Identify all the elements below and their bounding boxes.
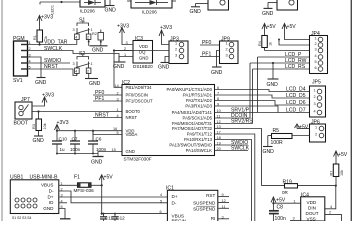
svg-text:4: 4 [314,110,316,114]
supply +5V R4 [262,24,267,30]
svg-text:PF1/OSCOUT: PF1/OSCOUT [126,99,154,104]
svg-text:IC4: IC4 [301,192,309,198]
resistor R19 [283,179,336,188]
wire JP3 pin2 DQ [114,50,169,52]
junction +5V fuse [101,184,103,186]
sheet left border [1,0,3,221]
svg-text:NRST: NRST [95,113,109,119]
wire SV1 pin3 to ground [28,57,42,78]
svg-text:R3: R3 [32,124,36,129]
pin labels IC3 [139,44,148,61]
wire RW to ground [272,63,274,79]
svg-text:IC3: IC3 [135,36,143,42]
svg-text:1: 1 [91,62,93,66]
svg-text:VBUS: VBUS [41,183,54,188]
wire JP4 pin2 [279,40,310,46]
wire IC2 pin7 to JP5 pin2 [215,95,310,98]
capacitor C6 [88,131,98,154]
wire SWCLK stub [215,150,249,152]
IC4 pin numbers [293,199,333,220]
wire PF1 stub IC2 [93,100,122,102]
svg-text:3: 3 [226,54,228,58]
junction VDD C10 [56,130,58,132]
wire cap ground rail [57,153,98,155]
svg-text:1: 1 [315,126,317,130]
svg-text:S1 S2 S3 S4: S1 S2 S3 S4 [12,216,32,220]
svg-text:11: 11 [222,205,226,209]
supply +3V3 above R1 [37,16,42,26]
svg-text:PA5/SCK1/AD5: PA5/SCK1/AD5 [183,116,213,121]
wire +5V to IC4 pin1 [273,202,300,204]
svg-text:C8: C8 [277,204,284,210]
optocoupler OK1 ILD206 [80,0,105,7]
IC1 left pin numbers [160,193,163,214]
ground R5 [263,146,273,148]
pin numbers JP5 [314,89,316,114]
ground JP9 [212,66,222,68]
IC1 right pin numbers [222,193,226,219]
svg-text:PA10/RX1/T13: PA10/RX1/T13 [184,137,213,142]
pushbutton S2 [75,51,91,79]
svg-text:100R: 100R [271,140,283,146]
svg-text:1: 1 [294,199,296,203]
wire SWCLK [28,51,120,63]
svg-text:GND: GND [211,70,223,76]
junction VDD C7 [74,130,76,132]
svg-text:PB1/AD9/T34: PB1/AD9/T34 [126,85,153,90]
wire to IC4 pin4 [325,186,336,209]
svg-text:PA2/TX1/AD2: PA2/TX1/AD2 [186,98,213,103]
USB1 pad names [12,216,32,220]
junction S1 right [88,41,90,43]
supply +5V USB [99,175,104,181]
wire LCD_RW row [250,62,310,64]
ground JP3 [161,62,170,64]
junction DQ [113,49,115,51]
svg-text:VDD: VDD [307,200,317,205]
wire LED net top [40,2,80,5]
wire PF0 to JP9 [200,44,220,46]
wire IC2 pin6 to JP5 pin1 [215,90,310,92]
svg-text:4: 4 [160,193,162,197]
svg-text:VDDA: VDDA [126,132,138,137]
svg-text:+5V: +5V [267,24,277,30]
svg-text:+5V: +5V [299,125,309,131]
svg-text:10k: 10k [43,123,47,129]
pin numbers JP6 [315,126,317,137]
wire R19 input [262,185,285,187]
svg-text:3: 3 [222,215,224,219]
junction gnd rail C7 [74,153,76,155]
svg-text:C7: C7 [72,136,78,141]
mcu IC2 STM32F030 [122,80,215,156]
wire ID stub [59,202,67,204]
svg-text:VSS: VSS [307,216,316,221]
svg-text:6: 6 [315,66,317,70]
wire LCD_P riser [257,57,259,113]
svg-text:D-: D- [172,200,177,205]
pin numbers JP4 [315,37,317,71]
svg-text:+3V3: +3V3 [42,93,54,99]
svg-text:R2: R2 [92,32,97,36]
svg-text:12: 12 [222,199,226,203]
svg-text:D-: D- [49,188,54,193]
svg-text:VDD_TAR: VDD_TAR [44,40,68,46]
wire IC3 pin3 [122,34,133,45]
svg-text:2: 2 [315,133,317,137]
svg-text:DIN: DIN [308,206,316,211]
wire IC2 pin12 SRV2/RS [215,123,253,125]
svg-text:+5V: +5V [338,152,348,158]
svg-text:GND: GND [89,81,101,87]
wire SWDIO stub [215,144,249,146]
svg-text:+5V: +5V [287,24,297,30]
capacitor C10 [52,131,62,154]
svg-text:3: 3 [117,97,119,101]
supply +3V3 IC3 [120,28,125,34]
overline SUSPEND [196,205,215,207]
svg-text:+5V: +5V [276,197,286,203]
svg-text:MFSI-036: MFSI-036 [74,188,95,193]
svg-text:4: 4 [117,114,119,118]
pushbutton S1 [75,18,91,45]
wire IC4 pin3 [290,220,301,222]
wire LCD_RS row [253,68,310,70]
ground at OK1 [106,0,115,6]
pin numbers JP9 [226,42,228,58]
svg-text:4: 4 [75,70,77,74]
svg-text:GND: GND [92,48,104,54]
svg-text:DOUT: DOUT [306,211,319,216]
junction LCD_RW gnd tap [272,62,274,64]
svg-text:GND: GND [158,65,170,71]
pin numbers JP3 [175,42,177,58]
connector JP5 [310,80,326,118]
wire K1 to ground [191,4,208,7]
svg-text:1k: 1k [269,42,273,46]
wire D+ [59,196,168,198]
connector JP6 [310,120,326,143]
svg-text:NRST: NRST [44,64,58,70]
svg-text:SUSPEND: SUSPEND [193,200,216,205]
svg-text:SRV2/RS: SRV2/RS [231,119,253,125]
junction JP4 pin1/2 [278,39,280,41]
junction on LED wire [60,1,62,3]
supply +5V JP6 [295,124,300,129]
svg-text:3: 3 [314,102,316,106]
svg-text:PA0/WKUP1/CTS1/AD0: PA0/WKUP1/CTS1/AD0 [166,87,212,92]
wire JP6 pin1 [297,128,310,130]
wire IC2 pin13 down to R19 [215,129,262,186]
ground USB [60,218,71,220]
connector USB1 mini-B [10,175,59,214]
svg-text:2: 2 [315,42,317,46]
svg-text:LCD_D4: LCD_D4 [286,87,306,93]
svg-text:R4: R4 [258,41,262,46]
svg-text:100n: 100n [275,216,286,221]
svg-text:F1: F1 [74,175,80,181]
wire USB GND [59,209,65,219]
wire R5 to ground [267,136,269,147]
IC1 right stubs [218,197,229,219]
svg-text:R1: R1 [33,35,37,40]
svg-text:SUSPEND: SUSPEND [193,206,216,211]
wire IC4 pin2 [325,215,342,221]
svg-text:BOOT0: BOOT0 [126,109,141,114]
optocoupler OK2 ILD206 [127,0,176,8]
connector JP4 [310,31,328,74]
svg-text:BOOT: BOOT [14,121,28,127]
wire IC2 pin18 down to edge [215,140,252,222]
svg-text:PA3/RX1/AD3: PA3/RX1/AD3 [185,104,212,109]
svg-text:GND: GND [35,80,47,86]
wire PF0 stub IC2 [93,94,122,96]
junction C11 [103,213,105,215]
svg-text:9: 9 [222,193,224,197]
svg-text:0R: 0R [282,190,289,195]
svg-text:1: 1 [175,42,177,46]
svg-text:1u: 1u [60,147,66,152]
supply +5V JP4 [282,24,287,30]
fuse F1 [74,175,102,188]
wire RS riser [252,69,254,124]
svg-text:+5V: +5V [104,174,114,180]
capacitor C7 [70,131,80,154]
svg-text:GND: GND [126,149,135,154]
svg-text:PA1/RTS1/AD1: PA1/RTS1/AD1 [183,93,213,98]
wire IC2 pin10 SRV1/P to JP5 pin4 row [215,112,310,114]
svg-text:ILD206: ILD206 [142,10,157,15]
svg-text:GND: GND [43,206,54,211]
svg-text:GND: GND [139,56,148,61]
svg-text:PF1: PF1 [202,52,212,58]
svg-text:R7: R7 [330,171,334,176]
junction gnd rail C6 [92,153,94,155]
svg-text:2: 2 [226,48,228,52]
svg-text:LCD_D5: LCD_D5 [286,93,306,99]
supply +3V3 JP7 [42,97,47,103]
junction R1/VDD_TAR [38,43,40,45]
svg-text:GND: GND [105,8,117,14]
wire BOOT0 [32,111,122,113]
wire RW riser [249,63,251,118]
wire VBUS to fuse [59,184,78,186]
wire NRST to S2 [28,69,77,76]
svg-text:PF0: PF0 [202,40,212,46]
svg-text:LCD_D6: LCD_D6 [286,100,306,106]
svg-text:2: 2 [175,48,177,52]
svg-text:STM32F030F: STM32F030F [124,157,152,162]
svg-text:6: 6 [160,210,162,214]
USB1 shield pads [15,198,37,208]
wire IC3 DQ net [114,50,133,52]
wire IC2 pin15 gnd [98,152,122,157]
svg-text:SV1: SV1 [13,78,23,84]
IC1 left pin labels [172,194,187,223]
wire IC2 pin9 to JP5 pin4 [215,106,279,113]
junction C12 [114,213,116,215]
wire 5V rail to IC1 [102,213,168,215]
svg-text:2: 2 [117,91,119,95]
svg-text:4: 4 [75,36,77,40]
svg-text:3: 3 [315,48,317,52]
resistor R5 [268,128,310,139]
svg-text:1: 1 [314,89,316,93]
wire K2 to ground [264,3,278,9]
svg-text:C6: C6 [96,136,102,141]
svg-text:ILD206: ILD206 [80,9,95,14]
svg-text:RST: RST [206,193,215,198]
wire IC2 pin11 DCOIN [215,117,251,119]
svg-text:GND: GND [33,138,45,144]
junction BOOT0/R3 [37,110,39,112]
wire JP3 pin3 gnd [165,57,169,63]
svg-text:C10: C10 [59,136,68,141]
USB1 pin numbers [61,182,63,209]
wire NRST stub IC2 [93,117,122,119]
svg-text:PF0/OSCIN: PF0/OSCIN [126,93,148,98]
svg-text:SWCLK: SWCLK [231,146,250,152]
connector JP3 [169,37,188,64]
junction C8 [272,202,274,204]
driver IC4 [301,192,325,221]
svg-text:R19: R19 [283,179,293,185]
junction gnd rail C10 [56,153,58,155]
supply +3V3 JP3 [159,30,164,37]
IC2 right pin labels [166,87,212,153]
svg-text:C12: C12 [116,216,125,221]
svg-text:GND: GND [91,160,103,166]
svg-text:14: 14 [115,84,119,88]
svg-text:LCD_RS: LCD_RS [285,64,306,70]
wire +5V to JP4 pin1 [285,30,310,40]
ground JP4 [268,78,279,80]
svg-text:2: 2 [87,70,89,74]
pin numbers S2 [73,62,93,74]
wire JP3 pin1 [162,37,170,45]
wire LCD_P row [258,56,310,58]
ground SV1 [37,77,46,79]
svg-text:NRST: NRST [126,115,138,120]
svg-text:RI: RI [211,216,216,221]
capacitor C12 [112,214,119,221]
svg-text:PA9/TX1/T12: PA9/TX1/T12 [187,132,213,137]
resistor R4 [262,30,268,51]
svg-text:PF1: PF1 [95,96,105,102]
pin numbers SV1 [29,41,31,70]
pin numbers IC3 [124,41,128,57]
svg-text:1: 1 [315,37,317,41]
svg-text:2: 2 [87,36,89,40]
wire VDD rail [57,130,122,132]
ground R3 [34,135,43,137]
ground S2 [85,78,98,80]
svg-text:SWCLK: SWCLK [44,46,63,52]
jumper JP7 BOOT [15,97,32,119]
svg-text:GND: GND [190,9,202,15]
svg-text:100n: 100n [70,147,81,152]
svg-text:+3V3: +3V3 [41,15,53,21]
shared ground S1/R2 [90,45,108,47]
svg-text:LCD_D7: LCD_D7 [286,108,306,114]
svg-text:PA4/NSS1/AD4/T141: PA4/NSS1/AD4/T141 [172,110,213,115]
svg-text:3: 3 [175,54,177,58]
svg-text:REGIN: REGIN [172,219,187,222]
wire +5V down [101,181,103,214]
svg-text:+3V3: +3V3 [57,120,69,126]
svg-text:5: 5 [117,131,119,135]
sensor IC3 DS18B20 [133,36,153,63]
svg-text:JP5: JP5 [312,80,321,86]
connector JP9 [220,37,239,64]
supply +5V R7 [334,151,339,157]
wire IC2 pin8 to JP5 pin3 [215,101,310,106]
svg-text:1: 1 [226,42,228,46]
svg-text:4: 4 [315,54,317,58]
svg-text:PA14/SWCLK: PA14/SWCLK [186,148,213,153]
capacitor C11 [100,214,107,221]
svg-text:ID: ID [49,200,54,205]
svg-text:5: 5 [160,199,162,203]
svg-text:3: 3 [73,28,75,32]
svg-text:D+: D+ [172,194,178,199]
supply +5V C8 [271,197,276,203]
svg-text:3: 3 [73,62,75,66]
relay/indicator box K1 [208,0,229,10]
svg-text:GND: GND [113,64,125,70]
wire SWDIO [28,62,71,64]
relay/indicator box K2 [277,0,298,10]
wire IC3 pin1 gnd [119,57,133,63]
svg-text:LED1: LED1 [51,5,55,15]
svg-text:GND: GND [263,149,275,155]
wire IC2 pin17 down to edge [215,134,255,221]
wire VDDA branch [93,131,122,135]
wire JP9 pin2 gnd [217,51,220,68]
IC4 pin labels [306,200,319,221]
pin numbers S1 [73,28,93,40]
resistor R7 [333,157,339,186]
resistor R2 small [92,30,104,46]
svg-text:2: 2 [314,95,316,99]
svg-text:VDD: VDD [139,44,148,49]
ground IC3 [114,61,126,63]
wire VDD_TAR [28,44,77,46]
svg-text:+3V3: +3V3 [160,25,172,31]
junction R7/R19 [335,185,337,187]
junction +5V row C [101,213,103,215]
svg-text:D+: D+ [47,194,53,199]
supply +3V3 VDD rail [55,125,60,131]
IC1 right pin labels [193,193,216,221]
svg-text:GND: GND [262,11,274,17]
usb bridge IC1 [166,186,218,224]
svg-text:4: 4 [330,205,332,209]
wire D- jog [59,191,168,203]
wire JP4 pin3 from R4 [265,50,310,52]
junction R2 bottom [100,41,102,43]
IC2 left pin labels [126,85,154,154]
svg-text:GND: GND [267,82,279,88]
svg-text:1: 1 [117,108,119,112]
svg-text:PA13/SWOUT/SWDIO: PA13/SWOUT/SWDIO [169,143,212,148]
sheet right border [350,0,352,221]
USB1 pin labels [41,183,54,211]
junction VDD C6 [92,130,94,132]
svg-text:DS18B20: DS18B20 [133,64,153,69]
svg-text:15: 15 [112,148,116,152]
ground MCU [93,156,104,158]
